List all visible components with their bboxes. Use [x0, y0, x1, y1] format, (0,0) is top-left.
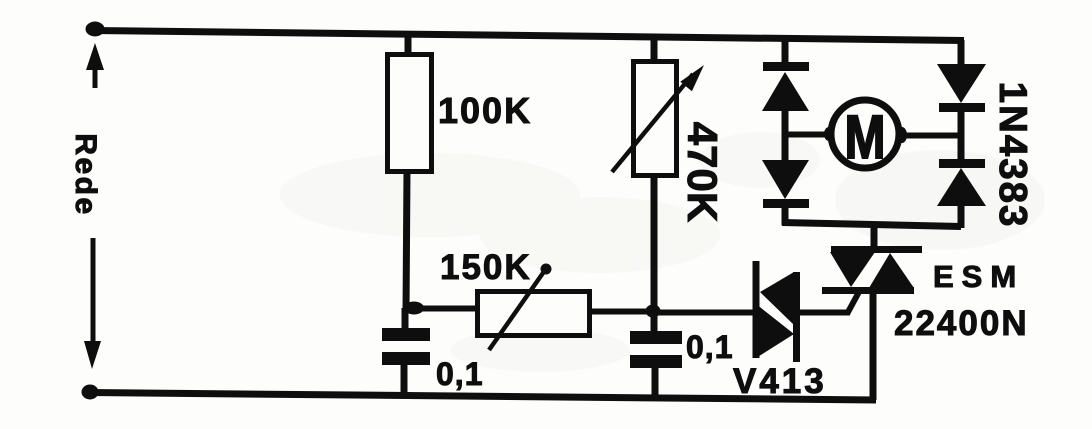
label 0,1 (C2): [686, 329, 733, 365]
label 1N4383: [991, 82, 1034, 229]
wire stub top rail to 470K: [651, 37, 658, 63]
node bottom-left (Rede terminal): [82, 385, 99, 400]
wire stub top rail to bridge left: [782, 36, 789, 64]
wire motor right lead: [899, 133, 960, 139]
wire bridge right to bottom bus: [958, 205, 965, 228]
wire top rail to bridge right: [958, 40, 965, 67]
wire node B to diac: [655, 310, 756, 316]
svg-text:ESM: ESM: [933, 259, 1024, 294]
label V413: [733, 362, 827, 401]
svg-text:150K: 150K: [440, 248, 532, 287]
svg-text:22400N: 22400N: [894, 304, 1029, 343]
arrow up (Rede): [86, 43, 104, 88]
wire 150K to node B: [589, 309, 657, 315]
triac ESM 22400N: [822, 224, 922, 400]
potentiometer 150K: [478, 264, 590, 351]
wire stub top rail to 100K: [405, 33, 412, 57]
label 470K: [679, 122, 726, 222]
diode D1 1N4383 (bridge upper-left): [762, 67, 809, 112]
diode D4 1N4383 (bridge lower-right): [937, 164, 986, 207]
wire bridge right mid: [958, 107, 965, 163]
wire bottom rail: [88, 393, 876, 401]
node A (junction 100K / 150K / C1): [404, 302, 424, 315]
motor M: [824, 100, 907, 171]
diac V413: [756, 261, 797, 362]
label 0,1 (C1): [436, 356, 483, 392]
svg-text:M: M: [845, 103, 886, 171]
arrow down (Rede): [84, 238, 101, 369]
capacitor C2 0,1 (right): [630, 312, 682, 400]
wire top rail: [91, 31, 964, 41]
node top-left (Rede terminal): [86, 22, 105, 37]
svg-text:0,1: 0,1: [686, 329, 733, 365]
wire motor left lead: [785, 132, 831, 138]
svg-text:470K: 470K: [679, 122, 726, 222]
label 22400N: [894, 304, 1029, 343]
wire diac to triac gate: [796, 290, 860, 314]
rheostat 470K: [612, 62, 704, 176]
wire node A to 150K: [410, 306, 479, 312]
svg-text:Rede: Rede: [69, 133, 102, 216]
wire bridge bottom bus: [782, 223, 961, 227]
svg-text:V413: V413: [733, 362, 827, 401]
label ESM: [933, 259, 1024, 294]
wire bridge left to bottom bus: [782, 203, 789, 225]
wire 470K to node B: [651, 174, 658, 314]
node B (junction 470K / 150K / C2 / diac): [646, 305, 661, 318]
svg-text:0,1: 0,1: [436, 356, 483, 392]
wire bridge left mid: [782, 110, 789, 162]
diode D2 1N4383 (bridge lower-left): [762, 160, 809, 204]
svg-text:1N4383: 1N4383: [991, 82, 1034, 229]
label 150K: [440, 248, 532, 287]
label 100K: [438, 90, 532, 131]
label Rede: [69, 133, 102, 216]
resistor 100K: [388, 55, 432, 172]
diode D3 1N4383 (bridge upper-right): [937, 64, 986, 108]
capacitor C1 0,1 (left): [382, 308, 430, 396]
svg-text:100K: 100K: [438, 90, 532, 131]
wire 100K to node A: [406, 170, 407, 312]
